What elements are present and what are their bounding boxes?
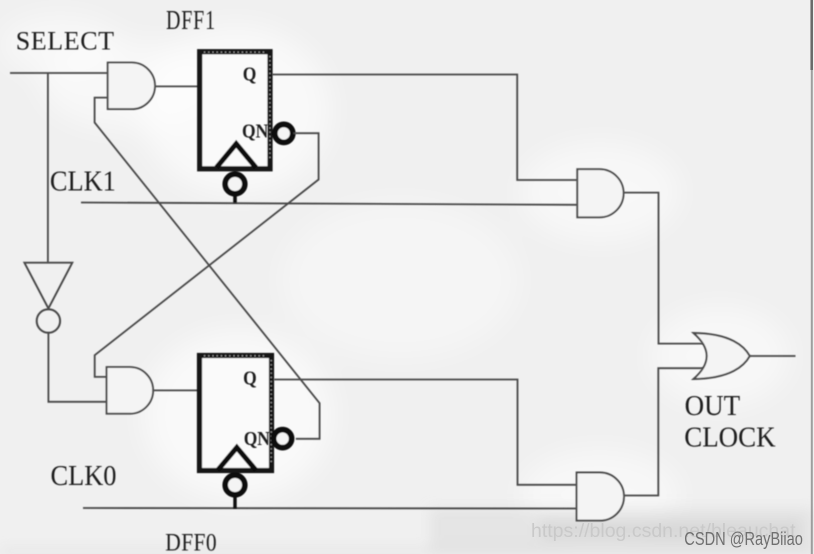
svg-text:DFF1: DFF1 [166,6,216,36]
svg-text:OUT: OUT [685,390,740,422]
svg-text:CLK0: CLK0 [51,460,117,491]
svg-text:QN: QN [242,120,269,142]
svg-text:CLK1: CLK1 [50,166,116,197]
svg-text:Q: Q [243,367,257,389]
svg-text:QN: QN [244,428,271,450]
svg-text:SELECT: SELECT [16,27,115,56]
svg-text:Q: Q [243,63,257,85]
svg-text:CLOCK: CLOCK [684,421,776,453]
svg-text:CSDN @RayBiiao: CSDN @RayBiiao [684,528,803,549]
svg-text:DFF0: DFF0 [165,529,217,554]
